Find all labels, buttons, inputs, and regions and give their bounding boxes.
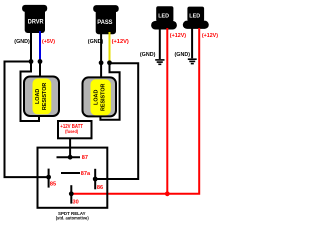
svg-text:86: 86 [97,185,103,191]
wire +12V node around R2 to its bottom [100,63,119,120]
node junction PASS +12V [107,60,112,65]
connector LED1 [151,6,177,29]
wire LED2 GND [191,28,193,58]
svg-text:(+12V): (+12V) [170,33,186,39]
svg-text:LED: LED [158,13,169,19]
svg-text:DRVR: DRVR [28,20,44,26]
svg-text:(+12V): (+12V) [112,39,129,45]
node junction DRVR GND [29,59,34,64]
relay pin 30 [70,185,72,203]
relay pin 86 [94,169,96,190]
wire DRVR +5V (blue) [39,31,41,62]
resistor R1 (load resistor) [24,77,59,117]
wire PASS GND node to R2 top [100,63,102,79]
ground symbol LED2 [188,59,197,63]
relay pin 87a [61,172,80,174]
relay pin 87 [57,156,81,158]
relay U1 box [38,148,108,208]
ground symbol LED1 [155,60,164,64]
svg-text:(GND): (GND) [175,52,191,58]
svg-text:LOAD: LOAD [93,90,99,105]
svg-text:85: 85 [50,182,56,188]
svg-text:LOAD: LOAD [35,89,41,104]
node junction PASS GND [99,60,104,65]
node junction pin 30 [69,191,74,196]
svg-text:RESISTOR: RESISTOR [100,83,106,111]
node red junction LED1 wire to pin30 wire [165,191,170,196]
wire GND node left and down to relay pin 85 [5,62,49,178]
svg-text:RESISTOR: RESISTOR [42,83,48,111]
svg-text:(fused): (fused) [65,129,78,135]
node junction pin 86 [93,177,98,182]
connector LED2 [183,7,209,29]
node junction DRVR +5V [38,59,43,64]
svg-text:87a: 87a [81,171,91,177]
wire DRVR GND (black) [30,31,32,62]
connector DRVR [22,5,47,33]
wire PASS GND (black) [100,32,102,63]
wire LED2 +12V (red) [71,28,199,194]
svg-text:(std. automotive): (std. automotive) [56,216,90,221]
connector PASS [93,5,119,34]
wire PASS +12V (yellow) [109,32,111,63]
svg-text:LED: LED [189,13,200,19]
svg-text:30: 30 [73,200,79,206]
wire LED1 GND [159,28,161,59]
wire +5V node to R1 top [39,62,41,79]
wire +12V node to relay pin 86 [95,63,138,179]
wire LED1 +12V (red) [166,28,168,194]
wire GND node around R1 to its bottom [21,62,40,122]
wire battery to relay pin 87 [69,139,71,158]
node junction pin 85 [46,175,51,180]
svg-text:87: 87 [82,155,88,161]
battery +12V BATT (fused) [58,121,92,138]
svg-text:PASS: PASS [97,20,112,26]
relay pin 85 [48,169,50,188]
svg-text:(+12V): (+12V) [202,33,218,39]
svg-text:(GND): (GND) [14,39,30,45]
svg-text:(+5V): (+5V) [42,39,55,45]
node junction pin 87 [68,155,73,160]
svg-text:(GND): (GND) [140,52,156,58]
resistor R2 (load resistor) [83,77,117,116]
